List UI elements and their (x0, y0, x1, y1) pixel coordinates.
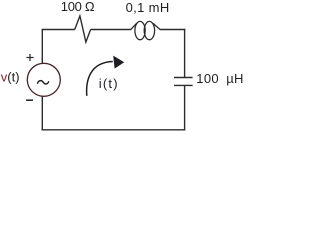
source sine tilde (37, 81, 48, 84)
wire right upper vertical (184, 29, 186, 78)
svg-text:i(t): i(t) (99, 76, 119, 91)
wire right lower vertical (184, 85, 186, 130)
wire top-right segment (160, 29, 186, 31)
wire left lower vertical (41, 96, 43, 130)
minus polarity mark (26, 99, 33, 101)
wire bottom segment (42, 129, 186, 131)
inductor L1 0,1 mH (131, 21, 161, 39)
source V1 circle (27, 63, 60, 96)
current arrow head (113, 56, 124, 69)
svg-text:v(t): v(t) (1, 69, 20, 84)
wire top-left segment (42, 29, 74, 31)
svg-text:100 Ω: 100 Ω (61, 0, 95, 14)
svg-text:0,1 mH: 0,1 mH (126, 0, 170, 15)
resistor R1 100 Ohm zigzag (75, 16, 91, 42)
current arrow arc (87, 62, 113, 96)
svg-text:100 µH: 100 µH (196, 71, 243, 86)
capacitor C1 plates (174, 78, 193, 86)
wire top-middle segment (91, 29, 132, 31)
plus polarity mark (26, 54, 33, 61)
wire left upper vertical (41, 29, 43, 64)
